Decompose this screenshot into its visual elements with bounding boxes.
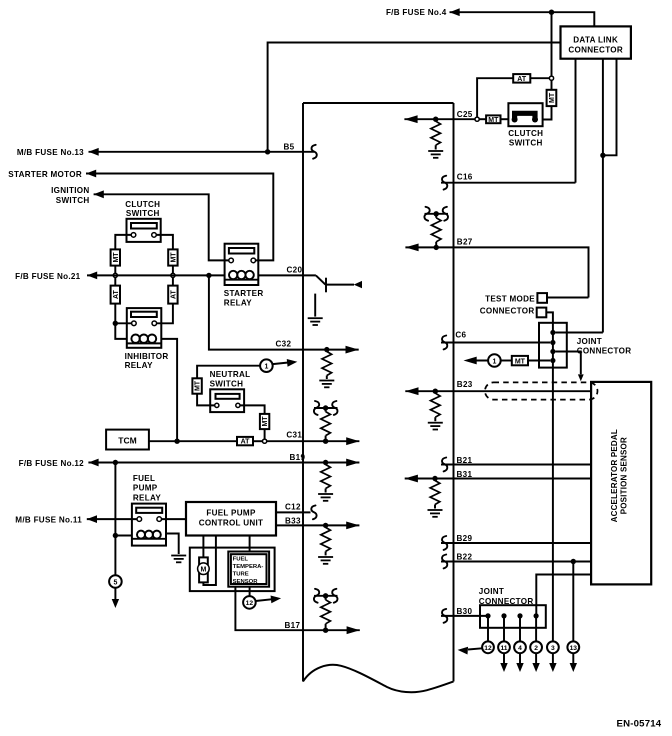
junction node <box>432 476 437 481</box>
joint nodes <box>485 613 490 618</box>
wire C16 to DLC <box>441 182 576 184</box>
coil <box>131 335 139 343</box>
svg-text:FUEL PUMP: FUEL PUMP <box>206 509 256 518</box>
node MT/AT right <box>171 273 175 277</box>
svg-text:4: 4 <box>518 645 522 652</box>
M/B FUSE No.13 arrow <box>89 148 99 156</box>
AT tag <box>237 437 253 445</box>
junction node <box>323 523 328 528</box>
joint nodes <box>550 330 555 335</box>
ground <box>171 556 186 563</box>
svg-text:SENSOR: SENSOR <box>233 579 259 585</box>
connector circle 13 <box>567 641 579 653</box>
wire C25 to MT tag <box>479 118 486 120</box>
DLC pin wire 3 <box>603 59 617 156</box>
accelerator pedal position sensor <box>591 382 651 585</box>
B17 row <box>235 587 359 634</box>
MT tag vertical <box>547 90 557 106</box>
neutral switch SW3 <box>210 370 251 412</box>
node C25 <box>475 117 479 121</box>
junction node inhibitor coil <box>113 321 118 326</box>
resistor R-B19 <box>321 465 331 489</box>
connector circle 2 <box>530 641 542 653</box>
wire node to coil <box>115 323 127 339</box>
svg-text:TCM: TCM <box>118 436 136 446</box>
svg-text:M/B FUSE No.11: M/B FUSE No.11 <box>15 516 82 525</box>
C16 row <box>441 173 576 190</box>
wire FPCU to pump motor return <box>203 536 216 586</box>
wire B27 to test mode connector <box>405 247 588 297</box>
svg-text:TURE: TURE <box>233 571 249 577</box>
ground <box>308 318 323 325</box>
B23 row <box>405 380 597 430</box>
svg-text:AT: AT <box>171 289 178 299</box>
fuel pump motor M <box>198 557 210 582</box>
wire F/B FUSE No.4 to DATA LINK CONNECTOR <box>450 12 595 26</box>
svg-text:B27: B27 <box>457 238 473 247</box>
arrow out <box>464 357 477 365</box>
data link connector U1 <box>561 26 631 58</box>
ground <box>318 557 333 564</box>
AT tag left <box>114 278 116 286</box>
wire M/B FUSE No.11 to relay contact <box>87 518 137 520</box>
TCM box <box>106 430 149 450</box>
svg-text:CONNECTOR: CONNECTOR <box>480 307 535 316</box>
B19 row <box>88 453 359 501</box>
wire circle 11 down + arrow <box>503 653 505 663</box>
svg-text:B5: B5 <box>284 142 295 151</box>
ECM left edge <box>302 103 304 682</box>
STARTER MOTOR arrow <box>86 170 96 178</box>
connector circle 4 <box>514 641 526 653</box>
break squiggle B5 <box>312 145 317 159</box>
wire B33 <box>276 524 359 526</box>
wire circle 13 down + arrow <box>572 653 574 663</box>
ground <box>428 423 443 430</box>
collector wire with arrow <box>326 284 354 286</box>
svg-text:C32: C32 <box>276 339 292 348</box>
resistor R-B23 <box>431 393 441 417</box>
wire clutch switch left to MT tag <box>115 235 131 250</box>
svg-text:C16: C16 <box>457 173 473 182</box>
ECM main unit box (torn bottom) <box>303 103 454 692</box>
wire TCM to AT tag <box>149 440 237 442</box>
B30 row <box>441 607 488 623</box>
wire sensor to circle 12 <box>249 587 251 597</box>
resistor R-C32 <box>322 352 332 376</box>
fuel pump assembly box <box>190 548 275 592</box>
svg-text:AT: AT <box>113 289 120 299</box>
C31 row <box>149 401 360 446</box>
ground <box>319 381 334 388</box>
svg-text:CLUTCH: CLUTCH <box>125 200 160 209</box>
wire MT to node <box>551 80 553 90</box>
svg-text:SWITCH: SWITCH <box>210 379 244 388</box>
wire sensor to B17 <box>235 587 359 631</box>
svg-text:CONTROL UNIT: CONTROL UNIT <box>199 519 264 528</box>
C20 row output driver <box>258 265 362 325</box>
svg-text:B23: B23 <box>457 380 473 389</box>
junction node DLC pins 2-3 <box>600 153 605 158</box>
wire MT to node <box>172 266 174 274</box>
fuel pump control unit U2 <box>186 502 276 536</box>
svg-text:B19: B19 <box>290 453 306 462</box>
wire FPCU to pump motor <box>202 536 204 558</box>
arrow B17 <box>347 626 360 634</box>
arrow B31 <box>405 475 418 483</box>
svg-text:RELAY: RELAY <box>133 493 161 502</box>
pull-up node with broken feed wire <box>434 211 439 216</box>
inhibitor relay K2 <box>125 308 169 370</box>
junction node <box>571 559 576 564</box>
wire relay contact to FPCU <box>162 518 187 520</box>
svg-text:C12: C12 <box>285 502 301 511</box>
wire B5 row <box>89 151 315 153</box>
break squiggle B30 <box>442 609 447 623</box>
break squiggle B21 <box>442 458 447 472</box>
svg-text:F/B FUSE No.12: F/B FUSE No.12 <box>19 459 85 468</box>
svg-text:B17: B17 <box>285 621 301 630</box>
junction node <box>433 389 438 394</box>
node <box>549 76 553 80</box>
F/B FUSE No.12 arrow <box>88 459 98 467</box>
svg-text:TEST MODE: TEST MODE <box>485 295 535 304</box>
wire inhibitor coil to C31 row <box>161 339 177 441</box>
arrow C31 <box>346 437 359 445</box>
ECM right edge <box>453 103 455 682</box>
wire B19 row <box>88 462 359 464</box>
clutch switch SW1 <box>125 200 160 242</box>
wire joint node4 to MT tag <box>528 360 550 362</box>
wire circle 1 to neutral switch <box>197 366 260 379</box>
svg-text:AT: AT <box>517 76 527 83</box>
ground <box>318 494 333 501</box>
test mode pin 2 <box>537 308 547 318</box>
svg-text:MT: MT <box>113 252 120 263</box>
C25 row inside ECM <box>404 110 475 158</box>
C12 row <box>276 502 317 519</box>
wire from F/B No.4 node down <box>551 12 553 76</box>
wire AT to node <box>253 440 263 442</box>
svg-text:IGNITION: IGNITION <box>51 186 89 195</box>
svg-text:B22: B22 <box>457 553 473 562</box>
arrow C25 <box>404 115 417 123</box>
connector circle 12 <box>482 641 494 653</box>
wire C32 from F/B No.21 node <box>209 275 359 349</box>
svg-text:MT: MT <box>195 380 202 391</box>
break squiggle C16 <box>442 176 447 190</box>
connector circle 5 <box>109 575 122 588</box>
B27 row <box>405 207 588 298</box>
junction node fuel pump branch <box>113 460 118 465</box>
DLC pin wire 1 to C16 <box>575 59 577 183</box>
svg-text:2: 2 <box>534 645 538 652</box>
clutch switch SW2 branch (AT/MT) <box>475 12 556 147</box>
shield drain arrow <box>578 374 584 381</box>
node C31 <box>263 439 267 443</box>
wire FPCU to fuel temperature sensor <box>249 536 251 552</box>
arrow B19 <box>346 459 359 467</box>
svg-text:RELAY: RELAY <box>224 299 252 308</box>
wire relay coil to ground <box>166 534 179 555</box>
svg-text:C31: C31 <box>286 430 302 439</box>
IGNITION SWITCH arrow <box>94 190 104 198</box>
switch closed contact bar <box>515 113 535 119</box>
wire starter motor to starter relay contact <box>86 174 273 261</box>
DLC pin wire 2 down to joint connector <box>602 59 604 333</box>
AT tag <box>513 74 530 83</box>
svg-text:CONNECTOR: CONNECTOR <box>568 46 623 55</box>
break squiggle B22 <box>442 555 447 569</box>
svg-text:CLUTCH: CLUTCH <box>508 129 543 138</box>
svg-text:12: 12 <box>246 600 254 607</box>
svg-text:ACCELERATOR PEDAL: ACCELERATOR PEDAL <box>610 429 619 522</box>
svg-text:SWITCH: SWITCH <box>126 209 160 218</box>
svg-text:1: 1 <box>264 364 268 371</box>
arrow B27 <box>405 244 418 252</box>
resistor R-B17 up <box>325 624 327 628</box>
svg-text:TEMPERA-: TEMPERA- <box>233 564 264 570</box>
wire AT to inhibitor contact <box>157 304 173 324</box>
connector circle 12 <box>243 596 256 609</box>
svg-text:MT: MT <box>171 252 178 263</box>
svg-text:JOINT: JOINT <box>577 337 602 346</box>
break squiggle C12 <box>311 505 316 519</box>
wire circle 1 out <box>472 360 488 362</box>
wire joint node to circle 2 <box>535 616 537 642</box>
wire AT branch <box>477 78 549 117</box>
transistor Q1 bar <box>325 278 327 293</box>
svg-text:B30: B30 <box>457 607 473 616</box>
MT tag right <box>168 249 177 265</box>
MT tag <box>192 378 201 393</box>
svg-text:STARTER: STARTER <box>224 289 264 298</box>
pull-up node with broken feed wire <box>323 405 328 410</box>
wire B31 <box>405 478 591 480</box>
wire joint node1 to DLC drop <box>556 332 603 334</box>
ground <box>428 510 443 517</box>
svg-text:12: 12 <box>484 645 492 652</box>
F/B FUSE No.21 arrow <box>87 272 97 280</box>
arrow down <box>112 599 119 608</box>
svg-text:EN-05714: EN-05714 <box>617 718 662 729</box>
junction node relay coil <box>113 533 118 538</box>
switch terminals <box>512 117 518 123</box>
junction node B5 riser <box>265 149 270 154</box>
wire B23 to sensor <box>405 390 591 392</box>
junction node on F/B FUSE No.4 wire <box>549 10 554 15</box>
B22 row <box>441 553 591 569</box>
ECM torn wavy bottom edge <box>303 665 454 692</box>
ground <box>428 151 443 158</box>
junction node <box>323 628 328 633</box>
wire C12 <box>276 511 311 513</box>
junction node <box>434 245 439 250</box>
svg-text:PUMP: PUMP <box>133 484 158 493</box>
wire circle 4 down + arrow <box>519 653 521 663</box>
junction node C32 riser <box>206 273 211 278</box>
wire sensor return to joint connector <box>536 575 591 616</box>
svg-text:MT: MT <box>488 117 499 124</box>
MT tag <box>260 414 269 429</box>
wire node to coil <box>115 535 131 537</box>
MT tag left <box>111 249 120 265</box>
resistor R-B31 <box>430 481 440 505</box>
wire switch to MT riser <box>543 106 552 119</box>
svg-text:CONNECTOR: CONNECTOR <box>577 347 632 356</box>
C32 row <box>209 275 359 387</box>
coil <box>229 271 237 279</box>
arrow toward ECM <box>273 362 290 364</box>
junction node <box>323 460 328 465</box>
wire C25 <box>404 118 475 120</box>
wire circle 3 down + arrow <box>552 653 554 663</box>
wire node to ECM <box>267 440 360 442</box>
svg-text:MT: MT <box>549 92 556 103</box>
svg-text:JOINT: JOINT <box>479 587 504 596</box>
transistor Q1 base diagonal <box>316 275 326 284</box>
svg-text:F/B FUSE No.4: F/B FUSE No.4 <box>386 8 447 17</box>
resistor R-B27 <box>435 242 437 246</box>
wire MT to node <box>114 266 116 274</box>
wire B30 into joint connector <box>441 615 488 617</box>
MT tag <box>512 356 528 365</box>
svg-text:STARTER MOTOR: STARTER MOTOR <box>8 170 82 179</box>
pull-up node with broken feed wire <box>323 593 328 598</box>
test mode connector <box>480 293 589 641</box>
svg-text:C20: C20 <box>287 265 303 274</box>
B21 row <box>441 456 591 472</box>
wire C20 from starter relay <box>258 274 316 276</box>
arrow circle 12 to ECM <box>256 599 273 601</box>
MT tag <box>486 115 500 123</box>
connector circle 1 (neutral switch) <box>260 358 298 372</box>
wire MT to circle 1 <box>501 360 512 362</box>
svg-text:11: 11 <box>500 645 507 652</box>
svg-text:RELAY: RELAY <box>125 361 153 370</box>
wire B29 <box>441 542 591 544</box>
wire joint node to circle 11 <box>503 616 505 642</box>
svg-text:INHIBITOR: INHIBITOR <box>125 352 169 361</box>
wire joint node to circle 4 <box>519 616 521 642</box>
B31 row <box>405 470 591 517</box>
connector circle 1 <box>488 354 501 367</box>
wire pin1 to B27 line <box>547 297 589 299</box>
emitter ground stem <box>314 294 316 317</box>
junction node <box>324 347 329 352</box>
svg-text:C25: C25 <box>457 110 473 119</box>
wire MT tag to switch <box>501 118 509 120</box>
wire clutch switch right to MT tag <box>156 235 173 250</box>
M/B FUSE No.11 arrow <box>87 515 97 523</box>
svg-text:M/B FUSE No.13: M/B FUSE No.13 <box>17 148 84 157</box>
svg-text:AT: AT <box>241 439 251 446</box>
wire joint node3 to shield drain <box>556 352 581 375</box>
arrow B33 <box>346 522 359 530</box>
wire riser to DLC <box>268 43 561 152</box>
starter relay K1 <box>224 244 264 308</box>
svg-text:FUEL: FUEL <box>233 556 249 562</box>
resistor R-B33 <box>321 527 331 551</box>
wire B22 node down to circle 13 <box>572 562 574 642</box>
resistor R-C25 <box>431 121 441 145</box>
wire circle 2 down + arrow <box>535 653 537 663</box>
wire fuel pump feed riser <box>114 463 116 576</box>
svg-text:C6: C6 <box>455 331 466 340</box>
joint connector (lower) <box>479 587 546 628</box>
svg-text:3: 3 <box>551 645 555 652</box>
svg-text:NEUTRAL: NEUTRAL <box>210 370 251 379</box>
resistor R-C31 up <box>325 436 327 440</box>
C6 row <box>441 331 550 350</box>
svg-text:SWITCH: SWITCH <box>56 196 90 205</box>
wire circle 5 down <box>114 588 116 600</box>
clutch switch body <box>508 103 542 126</box>
svg-text:5: 5 <box>113 579 117 586</box>
svg-text:MT: MT <box>515 359 526 366</box>
arrow circle 12 to ECM <box>468 648 482 649</box>
svg-text:POSITION SENSOR: POSITION SENSOR <box>620 437 629 514</box>
wire C6 <box>441 342 550 344</box>
joint connector (upper) <box>539 323 631 368</box>
wire B22 <box>441 561 591 563</box>
wire F/B FUSE No.21 row to starter relay coil <box>87 274 225 276</box>
svg-text:13: 13 <box>570 645 578 652</box>
B33 row <box>276 516 359 564</box>
shield (dashed) <box>485 382 598 399</box>
fuel temperature sensor <box>228 552 269 587</box>
svg-text:B33: B33 <box>285 516 301 525</box>
svg-text:F/B FUSE No.21: F/B FUSE No.21 <box>15 272 81 281</box>
junction node <box>433 117 438 122</box>
wire joint node to circle 12 <box>487 616 489 642</box>
wire B21 <box>441 464 591 466</box>
break squiggle B29 <box>442 536 447 550</box>
wire MT to neutral switch <box>197 394 214 406</box>
svg-text:MT: MT <box>262 416 269 427</box>
test mode pin 1 <box>537 293 547 303</box>
wire neutral switch to MT tag <box>240 405 265 414</box>
coil <box>137 531 145 539</box>
wire node to contact <box>115 322 131 324</box>
F/B FUSE No.4 arrow <box>450 8 460 16</box>
svg-text:DATA LINK: DATA LINK <box>573 36 618 45</box>
connector circle 3 <box>547 641 559 653</box>
svg-text:M: M <box>200 567 206 574</box>
svg-text:1: 1 <box>492 358 496 365</box>
B29 row <box>441 534 591 550</box>
svg-text:SWITCH: SWITCH <box>509 138 543 147</box>
ECM top edge <box>303 102 454 104</box>
connector circle 11 <box>498 641 510 653</box>
wire pin2 to joint connector / circle 3 <box>546 312 553 641</box>
break squiggle C6 <box>442 336 447 350</box>
node MT/AT left <box>113 273 117 277</box>
wire AT to inhibitor relay <box>114 304 116 324</box>
junction node <box>323 439 328 444</box>
svg-text:FUEL: FUEL <box>133 474 155 483</box>
arrow C32 <box>346 346 359 354</box>
arrow B23 <box>405 387 418 395</box>
fuel pump relay K3 <box>132 474 166 546</box>
AT tag right <box>172 278 174 286</box>
svg-text:B29: B29 <box>457 534 473 543</box>
wire ignition switch to starter relay contact <box>94 194 229 260</box>
wire MT to C31 node <box>264 429 266 439</box>
junction node inhibitor drop <box>174 439 179 444</box>
